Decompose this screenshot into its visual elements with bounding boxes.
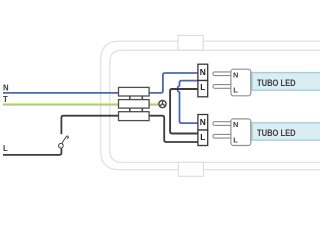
svg-text:TUBO LED: TUBO LED <box>257 78 296 88</box>
svg-text:L: L <box>233 86 238 95</box>
tube 1 wire connector N <box>198 64 208 80</box>
svg-text:N: N <box>3 83 9 92</box>
svg-text:L: L <box>3 144 8 153</box>
switch S1 lever <box>62 136 68 144</box>
tube 2 pin L <box>213 134 233 138</box>
tube 2 pin N <box>213 122 233 126</box>
switch S1 contact circle <box>59 143 64 148</box>
wire live black from L to switch <box>3 148 61 155</box>
fixture housing inner profile <box>110 50 320 162</box>
terminal block connector 2 (earth) <box>119 100 150 109</box>
LED tube 2 body <box>252 123 320 140</box>
svg-text:N: N <box>233 70 238 79</box>
terminal block link pins between connectors <box>130 96 143 112</box>
svg-text:T: T <box>3 95 8 104</box>
wire neutral blue main run <box>3 73 198 93</box>
svg-text:TUBO LED: TUBO LED <box>257 128 296 138</box>
terminal block connector 1 (N) <box>119 87 150 96</box>
svg-text:N: N <box>200 67 206 77</box>
LED tube 1 body <box>252 73 320 91</box>
svg-text:L: L <box>200 82 205 92</box>
tube 2 wire connector N <box>198 115 208 131</box>
svg-text:L: L <box>233 135 238 144</box>
housing bottom mounting tab <box>178 162 203 176</box>
svg-text:L: L <box>200 132 205 142</box>
wire live black daisy chain tube 1 L to tube 2 L <box>170 89 198 134</box>
terminal block connector 3 (L) <box>119 112 150 121</box>
tube 2 endcap <box>231 119 251 146</box>
wire neutral blue branch to tube 2 with hop <box>177 81 197 124</box>
tube 1 wire connector L <box>198 81 208 97</box>
tube 1 pin L <box>213 85 233 89</box>
svg-text:N: N <box>233 120 238 129</box>
wire earth yellow stripe <box>3 103 159 105</box>
svg-text:N: N <box>200 117 206 127</box>
wire earth green stripe <box>3 104 159 106</box>
tube 2 wire connector L <box>198 130 208 146</box>
fixture housing outer profile <box>101 41 320 170</box>
housing top mounting tab <box>178 35 203 50</box>
tube 1 pin N <box>213 72 233 76</box>
earth symbol <box>159 100 166 107</box>
tube 1 endcap <box>231 69 251 96</box>
wire live black terminal to tube 2 L <box>149 116 198 142</box>
wire live black switch to terminal <box>61 116 118 135</box>
